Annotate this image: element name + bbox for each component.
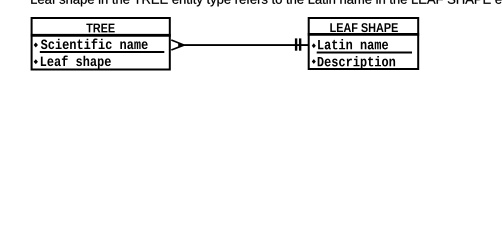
attribute Latin name (primary key) — [318, 39, 388, 49]
cardinality bar 2 — [299, 38, 301, 50]
relationship line — [183, 44, 309, 46]
cardinality bar 1 (one and only one, LEAF SHAPE end) — [295, 38, 297, 50]
attribute Scientific name (primary key) — [41, 39, 148, 50]
crow's foot top prong (many end at TREE) — [171, 40, 184, 45]
attribute bullet (LEAF SHAPE, Description) — [312, 59, 316, 64]
entity LEAF SHAPE box — [309, 18, 419, 69]
attribute bullet (LEAF SHAPE, Latin name) — [312, 43, 316, 48]
entity LEAF SHAPE header separator — [308, 33, 420, 36]
entity TREE title — [86, 24, 114, 33]
attribute Description — [318, 56, 395, 69]
crow's foot arrowhead — [178, 43, 185, 47]
primary key underline (TREE) — [40, 51, 165, 53]
attribute bullet (TREE, Scientific name) — [34, 43, 38, 48]
entity LEAF SHAPE title — [330, 23, 398, 32]
crow's foot bottom prong — [171, 45, 184, 50]
attribute bullet (TREE, Leaf shape) — [34, 59, 38, 64]
caption text (cut off at top): Leaf shape in the TREE entity type refers to the Latin name in the LEAF SHAPE entity type — [31, 0, 502, 6]
attribute Leaf shape — [41, 56, 111, 69]
entity TREE header separator — [31, 34, 171, 37]
primary key underline (LEAF SHAPE) — [317, 52, 412, 54]
entity TREE box — [32, 18, 170, 70]
